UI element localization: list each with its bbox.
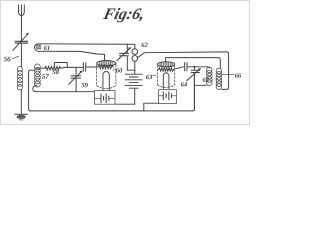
transformer primary coil 65 <box>207 67 213 85</box>
wire battery down and left to filament box <box>115 88 135 104</box>
tube 63 top plate (hatched ellipse) <box>158 62 175 67</box>
wire grid condenser to tube 60 <box>87 66 98 68</box>
filament battery A1 <box>95 97 115 99</box>
series condenser at tube 63 output <box>185 63 187 71</box>
node T-junction to condenser 59 <box>75 67 77 75</box>
ground bus wire <box>30 73 194 111</box>
wire condenser to transformer 65 <box>188 67 209 69</box>
wire phones top <box>134 44 136 48</box>
wire 57 left tap down to ground bus <box>29 70 35 111</box>
leader line for 66 <box>222 73 234 75</box>
tube 60 bulb outline (dashed) <box>97 65 116 86</box>
telephone receiver lower <box>132 56 138 62</box>
tube 60 top plate (hatched ellipse) <box>97 61 116 66</box>
grid condenser (series) <box>83 63 85 71</box>
wire upper line corner down to condenser 62 <box>126 44 128 53</box>
wire condenser 64 down to bus <box>193 73 195 109</box>
wire filament box 63 to bus <box>144 103 159 111</box>
tube 60 filament <box>103 72 109 88</box>
wire antenna lead-in <box>20 16 22 41</box>
leader line for 63 <box>153 75 156 77</box>
label 63 <box>146 75 152 79</box>
leader line for 56 <box>12 56 18 59</box>
node junction of condenser 64 branch <box>193 66 195 68</box>
transformer secondary coil 66 <box>216 68 222 89</box>
variable condenser 62 <box>120 53 129 55</box>
label 60 <box>116 68 122 72</box>
title Fig:6, <box>103 8 143 23</box>
tube 63 bulb outline (dashed) <box>158 66 175 85</box>
label 56 <box>4 57 11 62</box>
wires tube 63 filament legs <box>163 87 169 90</box>
wire phones bottom to battery <box>134 61 136 74</box>
coupling loop 61 upper wire <box>38 43 135 46</box>
condenser plates at loop 61 end <box>36 45 41 49</box>
wire resistor to grid condenser <box>61 66 82 69</box>
antenna <box>19 5 25 16</box>
telephone receiver upper <box>132 49 138 55</box>
wire plate line to output (outer loop) <box>144 52 228 90</box>
wire bypass hop over resistor <box>54 63 67 68</box>
filament box of tube 60 <box>95 91 115 105</box>
wire condenser 59 down to return wire <box>75 79 77 92</box>
wire 57 top to grid leak <box>36 67 45 69</box>
variable condenser 64 <box>191 70 199 72</box>
label 64 <box>181 82 187 86</box>
variable condenser 56 <box>15 41 27 43</box>
antenna coil (primary winding) <box>17 67 22 90</box>
arrow of condenser 56 <box>13 34 28 51</box>
variable condenser 59 <box>71 76 81 78</box>
label 65 <box>203 77 209 81</box>
tube 63 filament <box>163 73 169 87</box>
wire 57 bottom to filament box <box>33 85 95 92</box>
wire coil 65 bottom to condenser 64 branch <box>194 84 206 86</box>
wire tube 63 grid to condenser <box>175 67 184 69</box>
filament box of tube 63 <box>159 90 177 104</box>
wire junction to phones branch <box>127 69 135 71</box>
arrow of condenser 62 <box>117 48 130 61</box>
wire phones to plate line of tube 63 <box>137 53 144 58</box>
resistor 58 (grid leak) <box>45 66 61 70</box>
label 61 <box>44 46 50 50</box>
wire stem below condenser 56 <box>20 44 22 67</box>
wire junction down to condenser 64 <box>193 67 195 70</box>
wire tube 63 plate riser <box>166 58 221 68</box>
label 59 <box>81 83 87 87</box>
transformer secondary coil 57 <box>35 64 41 87</box>
wires tube 60 filament legs <box>103 88 109 91</box>
arrow of condenser 59 <box>69 72 82 85</box>
tube 63 grid zigzag <box>158 68 174 71</box>
wire coil to ground <box>20 90 22 115</box>
wire condenser 62 down to junction <box>126 56 128 70</box>
label 62 <box>142 43 148 47</box>
tube 60 grid zigzag <box>98 65 113 69</box>
label 57 <box>42 74 49 79</box>
coupling loop 61 lower wire <box>38 51 104 54</box>
wire loop 61 to tube 60 plate <box>104 54 106 60</box>
loop 61 left end cap <box>35 44 39 52</box>
arrow of condenser 64 <box>187 69 200 81</box>
ground <box>15 113 28 115</box>
filament battery A2 <box>159 95 177 97</box>
label 66 <box>235 73 241 77</box>
leader line for 60 <box>113 69 116 71</box>
label 58 <box>52 70 58 74</box>
battery B plates <box>125 74 142 88</box>
